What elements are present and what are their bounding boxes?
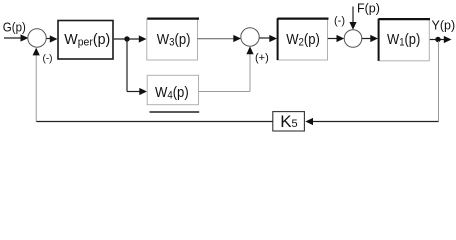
- block W3(p): [147, 18, 199, 60]
- wire S2 to W2: [259, 35, 277, 42]
- block W4(p): [147, 75, 199, 112]
- wire W2 to summing junction S3: [328, 35, 344, 42]
- wire F(p) arrow down into S3: [349, 7, 356, 30]
- block W2(p): [277, 18, 328, 60]
- wire W3 to summing junction S2: [198, 35, 242, 42]
- block Wper(p): [58, 21, 113, 60]
- block K5: [273, 112, 305, 131]
- svg-text:G(p): G(p): [3, 20, 26, 35]
- node junction dot after Wper: [124, 36, 129, 41]
- svg-text:(+): (+): [255, 52, 269, 64]
- wire input arrow into summing junction S1: [4, 34, 29, 41]
- wire S1 to Wper: [47, 35, 58, 42]
- svg-text:(-): (-): [334, 15, 345, 27]
- svg-text:(-): (-): [43, 54, 53, 65]
- wire Wper to W3: [114, 35, 147, 42]
- block W1(p): [378, 19, 430, 61]
- wire W1 to output Y(p): [430, 36, 452, 43]
- wire K5 back to S1: [33, 48, 273, 122]
- node output junction dot: [435, 37, 440, 42]
- summing junction S3: [344, 30, 362, 48]
- svg-text:W1(p): W1(p): [387, 30, 420, 49]
- wire S3 to W1: [362, 35, 378, 42]
- svg-text:Y(p): Y(p): [432, 18, 456, 32]
- wire feedback bottom into K5: [305, 118, 438, 125]
- wire feedback vertical right: [438, 41, 440, 122]
- wire branch down from junction to W4: [127, 39, 147, 95]
- summing junction S2: [241, 28, 259, 46]
- node G(p) input label: [3, 20, 26, 35]
- wire W4 up into summing junction S2: [199, 46, 254, 91]
- svg-text:F(p): F(p): [357, 2, 380, 16]
- svg-text:W2(p): W2(p): [286, 30, 320, 49]
- summing junction S1: [28, 29, 46, 47]
- svg-text:W3(p): W3(p): [157, 30, 191, 49]
- svg-text:W4(p): W4(p): [155, 83, 189, 102]
